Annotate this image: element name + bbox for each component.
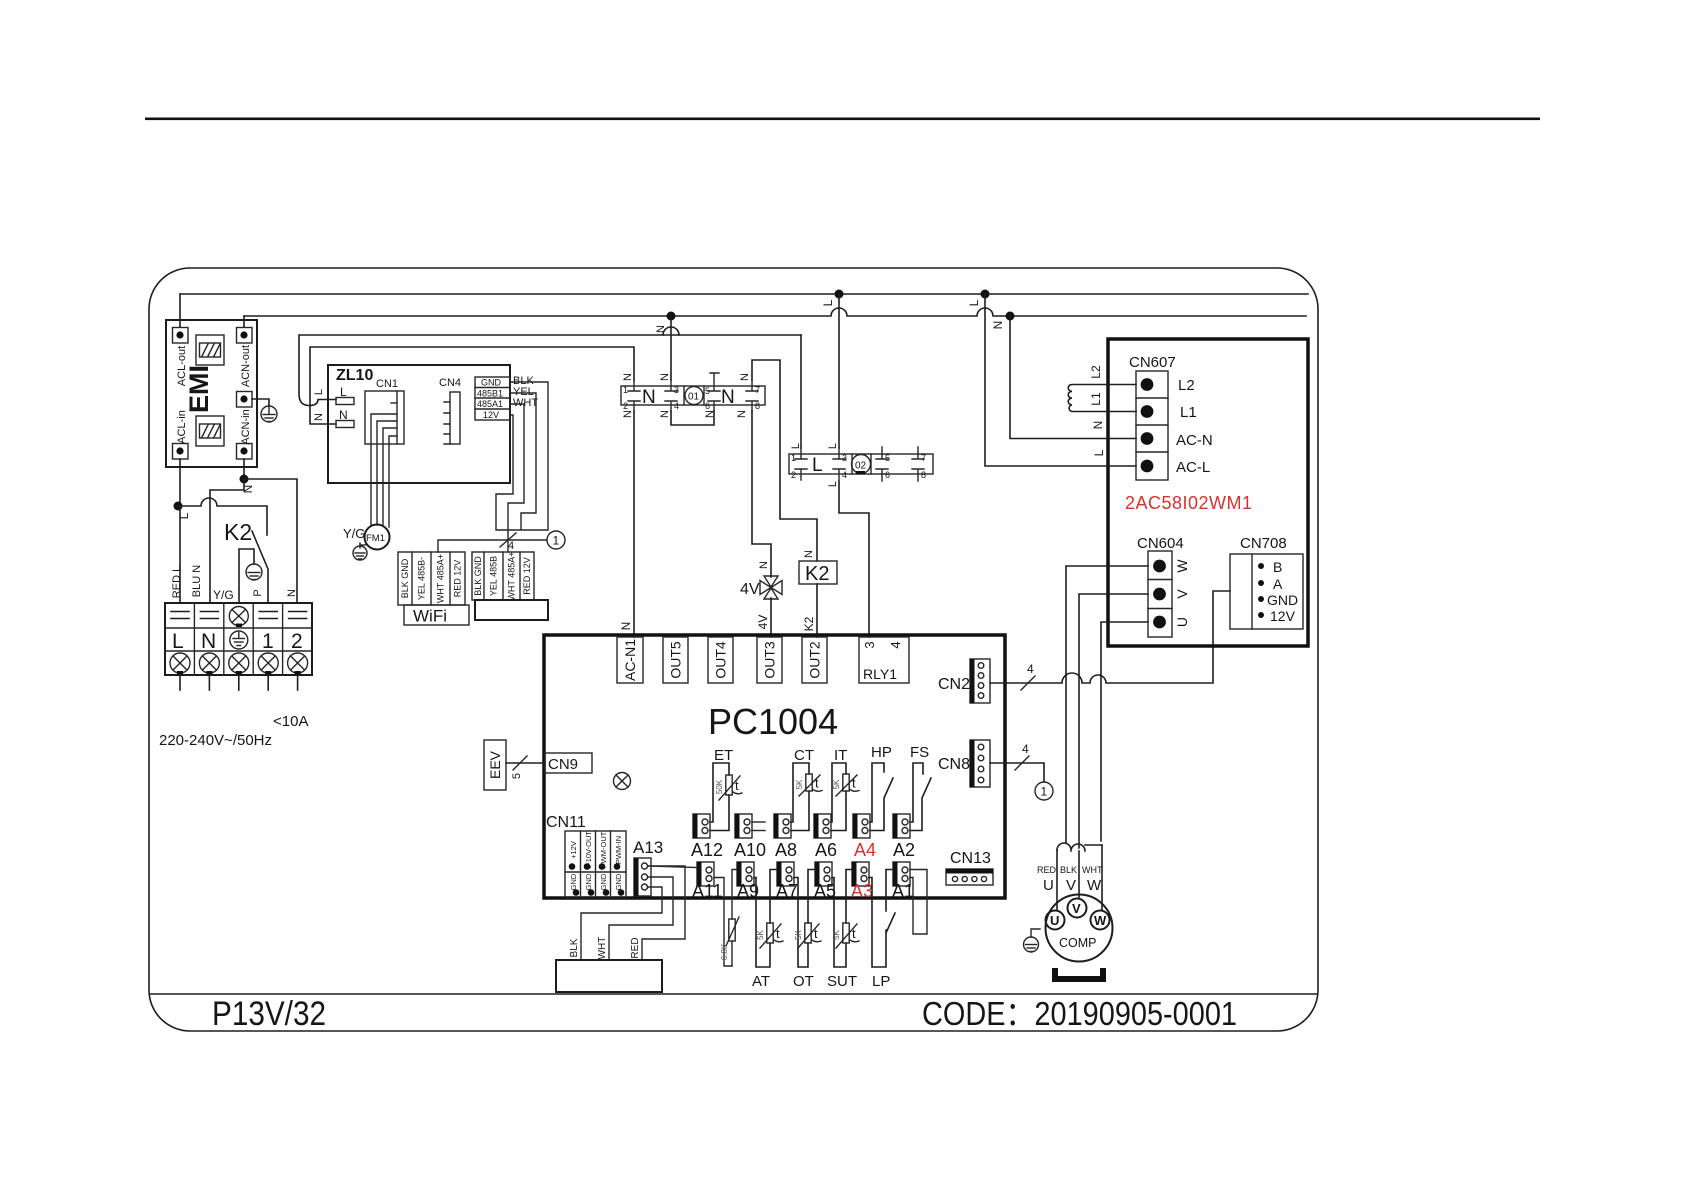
svg-text:L2: L2 <box>1178 377 1195 394</box>
svg-text:N: N <box>642 387 656 408</box>
wire 01-pin1 feed / ZL10 N (y=347 line) <box>310 347 634 424</box>
slash 5-wire mark <box>513 756 527 770</box>
wire U to COMP <box>1056 850 1058 910</box>
svg-text:L: L <box>177 512 191 519</box>
svg-text:Y/G: Y/G <box>213 588 234 602</box>
svg-text:ZL10: ZL10 <box>336 367 373 384</box>
svg-text:OUT2: OUT2 <box>807 641 823 679</box>
wire A13 pin1 RED <box>642 866 685 960</box>
svg-text:N: N <box>659 410 671 418</box>
terminal block outline <box>165 603 312 675</box>
slash 4-wire mark CN2 <box>1021 676 1035 690</box>
svg-text:L: L <box>821 299 835 306</box>
svg-text:L: L <box>827 443 839 449</box>
EMI choke upper <box>196 335 224 365</box>
svg-text:K2: K2 <box>802 616 816 631</box>
connector A10 <box>735 814 765 838</box>
svg-text:W: W <box>1087 877 1102 894</box>
connector A9 <box>737 862 754 886</box>
02 pin numbers <box>791 453 926 480</box>
svg-text:01: 01 <box>688 392 700 403</box>
sensor OT <box>794 870 815 968</box>
svg-text:50K: 50K <box>715 779 724 794</box>
wire 01-pin3 to N bus <box>670 316 672 380</box>
connector CN11 <box>565 831 626 897</box>
svg-text:A10: A10 <box>734 840 766 860</box>
connector A3 <box>852 862 869 886</box>
svg-text:t: t <box>735 778 739 793</box>
wire L node to K2 fixed contact (hop over N wire) <box>178 498 267 535</box>
svg-text:N: N <box>758 561 770 569</box>
ground symbol at Y/G <box>246 564 262 580</box>
svg-text:N: N <box>622 373 634 381</box>
svg-text:V: V <box>1066 877 1076 894</box>
svg-text:B: B <box>1273 559 1282 575</box>
svg-text:AT: AT <box>752 973 770 990</box>
wire 01-pin7 to K2 coil <box>752 360 817 561</box>
labels L at 02 pins <box>790 443 839 487</box>
wire N node to terminal 2 <box>244 479 297 603</box>
svg-text:A8: A8 <box>775 840 797 860</box>
svg-text:CN2: CN2 <box>938 676 970 693</box>
connector CN2 <box>970 659 990 703</box>
svg-text:5K: 5K <box>832 929 841 939</box>
svg-text:AC-N: AC-N <box>1176 432 1213 449</box>
connector CN604 <box>1148 551 1172 637</box>
switch HP <box>870 763 893 831</box>
svg-text:OUT5: OUT5 <box>668 641 684 679</box>
svg-text:6.8K: 6.8K <box>720 943 729 960</box>
terminal block column dividers <box>194 603 282 675</box>
svg-text:L: L <box>812 455 823 476</box>
svg-text:L1: L1 <box>1089 392 1103 406</box>
svg-text:ACN-out: ACN-out <box>240 345 252 387</box>
svg-text:4V: 4V <box>740 581 760 598</box>
inverter board 2AC58I02WM1 <box>1108 339 1308 646</box>
wire A13 pin3 BLK <box>581 887 662 960</box>
ZL10 board box <box>328 365 510 483</box>
svg-text:BLU N: BLU N <box>191 565 203 597</box>
svg-text:V: V <box>1072 901 1081 916</box>
schematic frame <box>149 268 1318 1031</box>
svg-text:3: 3 <box>842 453 847 463</box>
relay contact block 01 (N) <box>621 386 765 408</box>
svg-text:CN9: CN9 <box>548 756 578 773</box>
svg-text:N: N <box>339 408 348 422</box>
svg-text:BLK: BLK <box>1060 865 1077 875</box>
slash 4-wire mark at WiFi bus <box>500 533 516 547</box>
svg-text:4: 4 <box>674 401 679 411</box>
svg-text:GND: GND <box>481 378 502 388</box>
svg-text:ACN-in: ACN-in <box>240 409 252 444</box>
ground symbol at EMI <box>261 406 277 422</box>
wire A13-A11 link <box>648 866 697 868</box>
EMI terminal ACN-in <box>237 444 253 460</box>
node L split <box>174 502 183 511</box>
svg-text:1: 1 <box>1041 785 1048 799</box>
connector OUT2 <box>802 637 827 683</box>
WiFi module box <box>404 605 469 626</box>
EMI choke lower <box>196 416 224 446</box>
svg-text:A5: A5 <box>814 881 836 901</box>
svg-text:<10A: <10A <box>273 713 308 730</box>
svg-text:RED L: RED L <box>171 566 183 598</box>
wire K2 coil to OUT2 <box>816 584 818 637</box>
switch K2 blade <box>252 531 268 603</box>
svg-text:12V: 12V <box>483 410 499 420</box>
EMI filter box <box>166 320 257 467</box>
EMI terminal ACN-out <box>237 328 253 344</box>
switch FS <box>910 763 931 831</box>
connector A12 <box>693 814 710 838</box>
labels N at 01 pins <box>622 373 751 418</box>
node N split <box>240 475 249 484</box>
svg-text:GND: GND <box>584 873 593 890</box>
svg-text:L: L <box>172 630 184 653</box>
svg-text:L: L <box>827 481 839 487</box>
svg-text:WHT: WHT <box>513 397 538 409</box>
svg-text:K2: K2 <box>224 519 252 545</box>
svg-text:ACL-out: ACL-out <box>176 346 188 386</box>
svg-text:2AC58I02WM1: 2AC58I02WM1 <box>1125 493 1253 513</box>
01 pin numbers <box>623 385 760 411</box>
reactor coil L1/L2 <box>1068 385 1136 412</box>
svg-text:A2: A2 <box>893 840 915 860</box>
svg-text:FM1: FM1 <box>366 533 385 544</box>
svg-text:8: 8 <box>755 401 760 411</box>
svg-text:YEL 485B-: YEL 485B- <box>417 557 427 600</box>
svg-text:A4: A4 <box>854 840 876 860</box>
connector CN4 <box>439 377 461 444</box>
svg-text:7: 7 <box>921 453 926 463</box>
wire CN604 W <box>1066 566 1148 843</box>
connector A7 <box>777 862 794 886</box>
svg-text:4: 4 <box>1027 662 1034 676</box>
svg-text:HP: HP <box>871 744 892 761</box>
svg-text:N: N <box>201 630 216 653</box>
svg-text:A13: A13 <box>633 838 663 857</box>
svg-text:5K: 5K <box>794 929 803 939</box>
terminal block row dividers <box>165 628 312 651</box>
02 pin ticks <box>795 447 924 481</box>
wire A13 pin2 WHT <box>609 877 673 960</box>
svg-text:CT: CT <box>794 747 814 764</box>
connector CN8 <box>970 740 990 787</box>
svg-text:CN13: CN13 <box>950 850 991 867</box>
wire 02-pin4 to RLY1 <box>839 481 869 637</box>
slash 4-wire mark CN8 <box>1015 756 1029 770</box>
svg-text:02: 02 <box>855 461 867 472</box>
svg-text:LP: LP <box>872 973 890 990</box>
wire N bus to AC-N <box>1010 316 1136 439</box>
svg-text:RED: RED <box>1037 865 1057 875</box>
svg-text:4V: 4V <box>756 615 770 630</box>
wire N bus (with hops over L verticals) <box>244 308 1306 316</box>
svg-text:485A1: 485A1 <box>477 399 503 409</box>
terminal earth symbol row2 <box>230 631 248 649</box>
ZL10 signal table GND/485B1/485A1/12V <box>475 377 510 420</box>
wire CN2 to CN708 (4-core, hops over UVW) <box>990 591 1230 683</box>
wire 01-pin8 to 4V valve <box>752 411 771 577</box>
svg-text:7: 7 <box>755 385 760 395</box>
svg-text:5K: 5K <box>832 779 841 789</box>
svg-text:N: N <box>739 373 751 381</box>
svg-text:PWM-OUT: PWM-OUT <box>599 831 608 868</box>
wire ACN-out to N bus <box>243 316 245 327</box>
svg-text:OT: OT <box>793 973 814 990</box>
svg-text:YEL 485B: YEL 485B <box>489 556 499 596</box>
wire A11 pin2 to 6.8K <box>714 878 732 967</box>
svg-text:N: N <box>619 622 633 631</box>
connector AC-N1 <box>617 637 643 683</box>
svg-text:t: t <box>776 926 780 941</box>
node N bus / 01-pin3 junction <box>667 312 676 321</box>
wire CN604 V <box>1079 594 1148 848</box>
svg-text:12V: 12V <box>1270 608 1296 624</box>
svg-text:485B1: 485B1 <box>477 389 503 399</box>
svg-text:A11: A11 <box>692 881 723 901</box>
svg-text:+12V: +12V <box>569 841 578 859</box>
svg-text:GND: GND <box>1267 592 1298 608</box>
footer divider line <box>150 993 1317 995</box>
wire L node down to terminal L <box>179 506 181 603</box>
svg-text:2: 2 <box>291 630 303 653</box>
connector A8 <box>774 814 791 838</box>
svg-text:6: 6 <box>885 470 890 480</box>
relay coil K2 <box>799 561 837 585</box>
svg-text:N: N <box>622 410 634 418</box>
connector A4 <box>853 814 870 838</box>
indicator circle-X <box>614 773 631 790</box>
sensor IT loop <box>831 763 846 831</box>
svg-text:t: t <box>852 776 856 791</box>
wire CN8 to ref 1 <box>990 763 1044 782</box>
resistor 6.8K <box>732 870 737 967</box>
svg-text:U: U <box>1050 913 1059 928</box>
thermistor CT 5K <box>806 774 812 791</box>
svg-text:RED 12V: RED 12V <box>453 560 463 598</box>
hop of y335 line over pin3 wire (drawn in y335 path): arc <box>663 327 679 335</box>
svg-text:3: 3 <box>674 385 679 395</box>
terminal bottom stubs <box>180 675 298 690</box>
compressor mounting bracket <box>1052 968 1106 982</box>
node N bus / AC-N junction <box>1006 312 1015 321</box>
terminal row3 screw symbols <box>170 653 308 675</box>
svg-text:CN1: CN1 <box>376 378 398 390</box>
svg-text:PC1004: PC1004 <box>708 701 838 742</box>
thermistor ET 50K <box>726 775 732 795</box>
connector OUT5 <box>663 637 688 683</box>
svg-text:AC-N1: AC-N1 <box>622 639 638 681</box>
svg-text:RED 12V: RED 12V <box>522 557 532 595</box>
wire bus ZL10 table to connectors (staircase) <box>496 382 548 552</box>
svg-text:W: W <box>1094 913 1107 928</box>
svg-text:3: 3 <box>862 641 877 648</box>
CN1 internal wires to FM1 <box>371 414 397 527</box>
EMI terminal ACL-in <box>173 444 189 460</box>
svg-text:L: L <box>1092 449 1106 456</box>
svg-text:A7: A7 <box>776 881 798 901</box>
wire 01 pin4-pin6 jumper <box>671 411 714 425</box>
svg-text:RLY1: RLY1 <box>863 666 897 682</box>
svg-text:N: N <box>721 387 735 408</box>
top page rule <box>145 118 1540 121</box>
svg-text:EEV: EEV <box>487 750 503 779</box>
wire 02-pin1 feed to ZL10 L (y=335 line) <box>299 335 801 406</box>
connector display plug <box>472 551 534 600</box>
svg-text:1: 1 <box>791 453 796 463</box>
connector break arcs UVW <box>1057 843 1102 851</box>
4-way valve 4V <box>760 576 782 599</box>
svg-text:EMI: EMI <box>184 365 214 413</box>
ZL10 N stub <box>336 408 354 428</box>
svg-text:W: W <box>1174 559 1190 573</box>
01 pin ticks <box>628 373 758 411</box>
svg-text:2: 2 <box>623 401 628 411</box>
svg-text:N: N <box>313 413 325 421</box>
terminal row1 earth-screw symbol <box>229 607 248 628</box>
svg-text:8: 8 <box>921 470 926 480</box>
svg-text:RED: RED <box>630 937 641 958</box>
wire L bus <box>180 293 1308 295</box>
wire L bus to AC-L <box>985 294 1136 466</box>
ground symbol at COMP <box>1024 929 1041 952</box>
svg-text:1: 1 <box>262 630 274 653</box>
wire 4V valve to OUT3 <box>770 598 772 637</box>
svg-text:IT: IT <box>834 747 847 764</box>
terminal row1 link dashes <box>171 612 307 619</box>
svg-text:N: N <box>1091 421 1105 430</box>
off-page reference circle 1 (CN8) <box>1035 782 1053 800</box>
svg-text:OUT3: OUT3 <box>762 641 778 679</box>
svg-text:L: L <box>967 299 981 306</box>
svg-text:5K: 5K <box>795 779 804 789</box>
wire bus branch to WiFi connector and ref 1 <box>438 540 547 552</box>
connector A5 <box>815 862 832 886</box>
svg-text:L: L <box>313 389 325 395</box>
svg-text:WHT: WHT <box>597 937 608 960</box>
wire V to COMP <box>1078 851 1080 898</box>
svg-text:t: t <box>815 776 819 791</box>
svg-text:Y/G: Y/G <box>343 526 365 541</box>
svg-text:A12: A12 <box>691 840 723 860</box>
svg-text:220-240V~/50Hz: 220-240V~/50Hz <box>159 732 272 749</box>
wire EEV to CN9 <box>506 762 545 764</box>
svg-text:CN604: CN604 <box>1137 535 1184 552</box>
wire CN604 U <box>1101 622 1148 841</box>
svg-text:CN11: CN11 <box>546 814 586 831</box>
svg-text:ACL-in: ACL-in <box>176 410 188 444</box>
svg-text:5: 5 <box>705 386 710 396</box>
connector CN1 <box>365 378 404 444</box>
jumper loop at A1 <box>910 870 927 935</box>
svg-text:L: L <box>340 385 347 399</box>
svg-text:WHT 485A+: WHT 485A+ <box>507 551 517 600</box>
svg-text:5: 5 <box>885 453 890 463</box>
sensor CT loop <box>791 763 809 831</box>
svg-text:N: N <box>991 321 1005 330</box>
svg-text:t: t <box>852 926 856 941</box>
main board PC1004 <box>544 635 1005 898</box>
connector CN708 <box>1230 554 1303 629</box>
svg-text:N: N <box>241 485 255 494</box>
svg-text:BLK: BLK <box>569 938 580 957</box>
wire Y/G to earth <box>239 549 254 603</box>
svg-text:A: A <box>1273 576 1283 592</box>
svg-text:WHT: WHT <box>1082 865 1103 875</box>
connector CN9 <box>545 753 592 773</box>
connector WiFi plug <box>398 552 465 605</box>
svg-text:0-10V-OUT: 0-10V-OUT <box>584 831 593 869</box>
svg-text:L1: L1 <box>1180 404 1197 421</box>
connector OUT3 <box>757 637 782 683</box>
wire ACL-in down to L node <box>179 459 181 506</box>
svg-text:U: U <box>1043 877 1054 894</box>
svg-text:N: N <box>803 550 815 558</box>
connector CN13 <box>946 869 993 885</box>
ZL10 L stub <box>336 385 354 405</box>
connector A2 <box>893 814 910 838</box>
EMI terminal earth (mid right) <box>237 392 253 408</box>
svg-text:1: 1 <box>623 385 628 395</box>
EMI terminal ACL-out <box>173 328 189 344</box>
svg-text:SUT: SUT <box>827 973 857 990</box>
svg-text:A1: A1 <box>892 881 914 901</box>
sensor AT <box>754 870 777 968</box>
pump module box <box>556 960 662 992</box>
svg-text:ET: ET <box>714 747 733 764</box>
wire 01-pin2 down to AC-N1 <box>633 411 635 637</box>
svg-text:N: N <box>286 589 298 597</box>
svg-text:4: 4 <box>842 470 847 480</box>
display module box <box>475 600 548 620</box>
svg-text:GND: GND <box>614 873 623 890</box>
wire EMI earth terminal to ground <box>252 399 269 406</box>
relay contact block 02 (L) <box>789 454 933 476</box>
connector A13 <box>634 858 651 896</box>
svg-text:COMP: COMP <box>1059 936 1097 950</box>
svg-text:N: N <box>655 325 667 333</box>
wire W to COMP <box>1101 845 1103 910</box>
wire 02-pin3 to L bus <box>838 294 840 448</box>
switch LP <box>869 870 895 968</box>
svg-text:A6: A6 <box>815 840 837 860</box>
svg-text:OUT4: OUT4 <box>713 641 729 679</box>
svg-text:CODE：20190905-0001: CODE：20190905-0001 <box>922 995 1237 1032</box>
node L bus / AC-L junction <box>981 290 990 299</box>
connector OUT4 <box>708 637 733 683</box>
svg-text:4: 4 <box>888 641 903 648</box>
svg-text:CN8: CN8 <box>938 756 970 773</box>
svg-text:AC-L: AC-L <box>1176 459 1210 476</box>
svg-text:CN4: CN4 <box>439 377 461 389</box>
compressor COMP <box>1046 895 1113 962</box>
svg-text:WHT 485A+: WHT 485A+ <box>436 554 446 603</box>
fan motor FM1 <box>365 525 390 550</box>
svg-text:BLK GND: BLK GND <box>400 558 410 598</box>
svg-text:1: 1 <box>553 534 560 548</box>
wire ACL-out to L bus <box>179 294 181 327</box>
svg-text:CN607: CN607 <box>1129 354 1176 371</box>
svg-text:2: 2 <box>791 470 796 480</box>
svg-text:WiFi: WiFi <box>413 607 447 626</box>
svg-text:CN708: CN708 <box>1240 535 1287 552</box>
connector A11 <box>697 862 714 886</box>
svg-text:K2: K2 <box>805 563 829 585</box>
svg-text:A3: A3 <box>851 881 873 901</box>
ground symbol at FM1 <box>353 543 367 560</box>
svg-text:FS: FS <box>910 744 929 761</box>
